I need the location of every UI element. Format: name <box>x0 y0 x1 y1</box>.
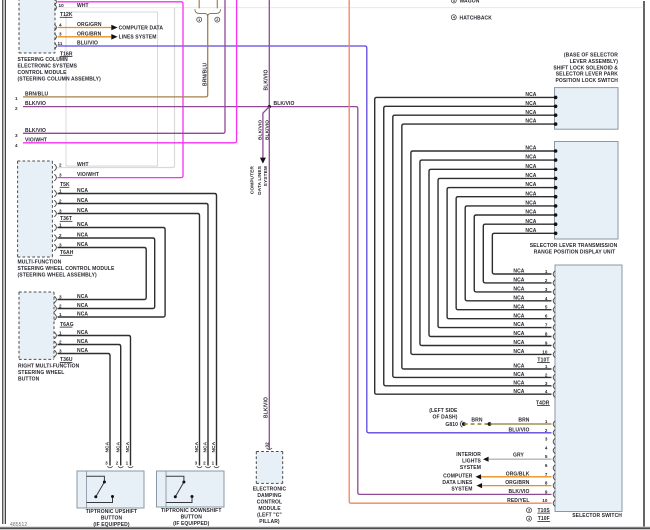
svg-text:WHT: WHT <box>77 3 89 9</box>
svg-text:3: 3 <box>105 461 108 466</box>
svg-text:DATA LINES: DATA LINES <box>257 165 263 195</box>
svg-text:11: 11 <box>58 41 63 46</box>
selector switch box <box>555 265 622 512</box>
svg-text:3: 3 <box>59 208 62 213</box>
svg-text:NCA: NCA <box>525 110 536 116</box>
svg-text:BLK/VIO: BLK/VIO <box>274 101 295 107</box>
svg-text:VIO/WHT: VIO/WHT <box>25 138 47 144</box>
page border bottom <box>0 527 650 530</box>
svg-text:6: 6 <box>545 314 548 319</box>
svg-text:DAMPING: DAMPING <box>257 493 281 499</box>
svg-text:8: 8 <box>545 481 548 486</box>
wire BRN to selector pin 1 <box>490 423 552 425</box>
wire NCA display unit pin to selector T10T pin 8 <box>429 169 555 336</box>
svg-text:STEERING COLUMN: STEERING COLUMN <box>18 57 69 63</box>
svg-text:HATCHBACK: HATCHBACK <box>460 15 493 21</box>
pin 10 <box>54 4 56 11</box>
svg-text:1: 1 <box>59 188 62 193</box>
svg-text:MODULE: MODULE <box>258 506 281 512</box>
selector T10S/T10F pin 7 <box>553 474 555 481</box>
svg-text:10: 10 <box>542 349 548 354</box>
selector T10T pin 10 <box>553 351 555 358</box>
svg-text:1: 1 <box>15 96 18 101</box>
wire NCA T36U pin 1 to upshift pin 1 <box>58 336 131 466</box>
svg-text:NCA: NCA <box>77 294 88 300</box>
pin 2 <box>205 466 210 467</box>
electronic damping control module box <box>256 452 282 484</box>
svg-text:NCA: NCA <box>513 380 524 386</box>
svg-text:BLK/VIO: BLK/VIO <box>264 397 270 418</box>
svg-text:SELECTOR LEVER PARK: SELECTOR LEVER PARK <box>556 72 619 78</box>
svg-text:DATA LINES: DATA LINES <box>442 480 473 486</box>
pin 3 <box>107 466 112 467</box>
svg-text:VIO/WHT: VIO/WHT <box>77 172 99 178</box>
svg-text:ELECTRONIC: ELECTRONIC <box>253 487 287 493</box>
svg-text:NCA: NCA <box>513 364 524 370</box>
svg-text:NCA: NCA <box>525 101 536 107</box>
svg-text:NCA: NCA <box>77 233 88 239</box>
svg-text:32: 32 <box>265 442 270 448</box>
wire NCA T36U pin 2 to upshift pin 2 <box>58 345 121 466</box>
pin 3 <box>197 466 202 467</box>
svg-text:2: 2 <box>203 461 206 466</box>
svg-text:3: 3 <box>195 461 198 466</box>
svg-text:CONTROL: CONTROL <box>257 500 282 506</box>
wire RED/YEL from top edge to selector pin 10 <box>349 0 551 503</box>
selector T10T pin 8 <box>553 333 555 340</box>
wire 1 BRN/BLU to splice bracket <box>23 15 208 97</box>
selector T10S/T10F pin 9 <box>553 491 555 498</box>
svg-text:PILLAR): PILLAR) <box>259 519 280 525</box>
svg-text:NCA: NCA <box>513 287 524 293</box>
svg-text:3: 3 <box>59 32 62 37</box>
svg-text:TIPTRONIC DOWNSHIFT: TIPTRONIC DOWNSHIFT <box>161 508 222 514</box>
wire 2 BLK/VIO trunk to selector pin 9 <box>23 107 552 495</box>
svg-text:3: 3 <box>59 172 62 177</box>
svg-text:4: 4 <box>545 389 548 394</box>
svg-text:NCA: NCA <box>525 155 536 161</box>
svg-text:(BASE OF SELECTOR: (BASE OF SELECTOR <box>564 53 618 59</box>
wire NCA T36T pin 1 to T6AG pin 1 <box>58 228 166 318</box>
svg-text:NCA: NCA <box>105 441 111 452</box>
wire NCA T36U pin 3 to upshift pin 3 <box>58 354 111 466</box>
svg-text:NCA: NCA <box>525 119 536 125</box>
svg-text:6: 6 <box>545 463 548 468</box>
svg-text:7: 7 <box>545 472 548 477</box>
svg-text:BRN/BLU: BRN/BLU <box>25 91 48 97</box>
svg-text:(STEERING WHEEL ASSEMBLY): (STEERING WHEEL ASSEMBLY) <box>18 273 98 279</box>
svg-text:(IF EQUIPPED): (IF EQUIPPED) <box>93 522 130 528</box>
selector T4DR pin 4 <box>553 391 555 398</box>
svg-text:1: 1 <box>198 18 200 22</box>
svg-text:NCA: NCA <box>525 228 536 234</box>
pin 3 VIO/WHT <box>54 174 56 181</box>
svg-text:MULTI-FUNCTION: MULTI-FUNCTION <box>18 260 62 266</box>
internal grey frame <box>66 12 158 166</box>
page border right line <box>643 1 645 528</box>
svg-text:NCA: NCA <box>211 441 217 452</box>
wire NCA display unit pin to selector T10T pin 1 <box>492 233 554 274</box>
pin 32 <box>267 448 272 449</box>
svg-text:WHT: WHT <box>77 162 89 168</box>
svg-text:5: 5 <box>545 454 548 459</box>
circled variant 1 <box>197 17 202 22</box>
selector T10S/T10F pin 6 <box>553 465 555 472</box>
wire NCA T5K pin 3 to downshift pin 3 <box>58 214 200 466</box>
wire NCA shift lock pin to selector T4DR pin 1 <box>402 124 555 369</box>
svg-text:BUTTON: BUTTON <box>101 516 123 522</box>
svg-text:NCA: NCA <box>525 201 536 207</box>
svg-text:BRN: BRN <box>471 417 482 423</box>
svg-text:2: 2 <box>59 303 62 308</box>
svg-text:NCA: NCA <box>513 331 524 337</box>
svg-text:2: 2 <box>216 18 218 22</box>
svg-text:NCA: NCA <box>525 219 536 225</box>
svg-text:3: 3 <box>528 509 530 513</box>
pin 11 BLU/VIO wire to selector pin 2 <box>58 46 552 433</box>
svg-text:LINES SYSTEM: LINES SYSTEM <box>119 35 157 41</box>
svg-text:NCA: NCA <box>525 191 536 197</box>
svg-text:2: 2 <box>545 372 548 377</box>
selector T10T pin 1 <box>553 271 555 278</box>
svg-text:STEERING WHEEL: STEERING WHEEL <box>18 370 64 376</box>
svg-text:4: 4 <box>59 22 62 27</box>
svg-text:2: 2 <box>59 233 62 238</box>
circled variant 2 <box>215 17 220 22</box>
connector T10F hatchback <box>527 516 532 521</box>
svg-text:WAGON: WAGON <box>460 0 480 5</box>
svg-text:ORG/BRN: ORG/BRN <box>77 31 102 37</box>
pin 1 NCA T6AG <box>54 314 56 321</box>
tiptronic downshift box <box>157 471 225 507</box>
svg-text:5: 5 <box>545 305 548 310</box>
svg-text:8: 8 <box>545 332 548 337</box>
svg-text:1: 1 <box>59 222 62 227</box>
svg-text:2: 2 <box>545 278 548 283</box>
selector T4DR pin 3 <box>553 383 555 390</box>
svg-text:BLK/VIO: BLK/VIO <box>25 128 46 134</box>
svg-text:1: 1 <box>212 461 215 466</box>
svg-text:NCA: NCA <box>77 330 88 336</box>
svg-text:NCA: NCA <box>525 146 536 152</box>
svg-text:2: 2 <box>545 428 548 433</box>
svg-text:NCA: NCA <box>77 339 88 345</box>
svg-text:1: 1 <box>126 461 129 466</box>
wire NCA display unit pin to selector T10T pin 6 <box>447 188 555 319</box>
wire 4 VIO/WHT to top edge <box>23 0 237 143</box>
wire NCA shift lock pin to selector T4DR pin 4 <box>375 97 555 394</box>
svg-text:3: 3 <box>453 0 455 3</box>
wire NCA T5K pin 1 to downshift pin 1 <box>58 194 217 466</box>
svg-text:3: 3 <box>59 348 62 353</box>
svg-text:NCA: NCA <box>513 349 524 355</box>
selector T10T pin 4 <box>553 298 555 305</box>
svg-text:1: 1 <box>59 330 62 335</box>
BLK/VIO branch to computer data lines system arrow <box>263 107 269 159</box>
wire NCA display unit pin to selector T10T pin 4 <box>465 206 555 301</box>
svg-text:NCA: NCA <box>525 164 536 170</box>
svg-text:NCA: NCA <box>77 198 88 204</box>
svg-text:3: 3 <box>59 294 62 299</box>
svg-text:(IF EQUIPPED): (IF EQUIPPED) <box>173 521 210 527</box>
selector T10S/T10F pin 4 <box>553 447 555 454</box>
svg-text:RIGHT MULTI-FUNCTION: RIGHT MULTI-FUNCTION <box>18 363 80 369</box>
svg-text:BLK/VIO: BLK/VIO <box>509 489 530 495</box>
svg-text:COMPUTER DATA: COMPUTER DATA <box>119 25 164 31</box>
svg-text:3: 3 <box>545 437 548 442</box>
svg-text:NCA: NCA <box>125 441 131 452</box>
svg-text:COMPUTER: COMPUTER <box>443 474 473 480</box>
selector T10S/T10F pin 3 <box>553 438 555 445</box>
pin 2 WHT <box>54 164 56 171</box>
svg-text:1: 1 <box>545 364 548 369</box>
svg-text:2: 2 <box>59 339 62 344</box>
pin 2 <box>118 466 123 467</box>
svg-text:(LEFT SIDE: (LEFT SIDE <box>429 408 458 414</box>
svg-text:SYSTEM: SYSTEM <box>451 487 472 493</box>
svg-text:BLK/VIO: BLK/VIO <box>264 70 270 91</box>
selector T10S/T10F pin 1 <box>553 421 555 428</box>
arrow to computer data lines system <box>111 25 117 31</box>
svg-text:OF DASH): OF DASH) <box>433 414 458 420</box>
svg-text:3: 3 <box>545 381 548 386</box>
selector T10S/T10F pin 10 <box>553 500 555 507</box>
svg-text:(LEFT "C": (LEFT "C" <box>257 513 282 519</box>
svg-text:NCA: NCA <box>525 182 536 188</box>
svg-text:BRN: BRN <box>518 417 529 423</box>
svg-text:SELECTOR LEVER TRANSMISSION: SELECTOR LEVER TRANSMISSION <box>530 243 618 249</box>
svg-text:NCA: NCA <box>77 208 88 214</box>
svg-text:9: 9 <box>545 341 548 346</box>
wire NCA shift lock pin to selector T4DR pin 2 <box>393 115 555 377</box>
svg-text:G810: G810 <box>445 422 458 428</box>
svg-text:NCA: NCA <box>513 322 524 328</box>
svg-text:BLK/VIO: BLK/VIO <box>25 101 46 107</box>
svg-text:NCA: NCA <box>194 441 200 452</box>
svg-text:NCA: NCA <box>525 210 536 216</box>
svg-text:NCA: NCA <box>513 269 524 275</box>
svg-text:BLU/VIO: BLU/VIO <box>509 428 530 434</box>
splice alternative stubs and brace <box>198 0 200 8</box>
svg-text:2: 2 <box>59 162 62 167</box>
svg-text:NCA: NCA <box>77 348 88 354</box>
svg-text:NCA: NCA <box>203 441 209 452</box>
svg-text:1: 1 <box>59 312 62 317</box>
svg-text:RANGE POSITION DISPLAY UNIT: RANGE POSITION DISPLAY UNIT <box>534 249 616 255</box>
pin 2 NCA T6AG <box>54 305 56 312</box>
svg-text:7: 7 <box>545 323 548 328</box>
svg-text:BUTTON: BUTTON <box>181 515 203 521</box>
svg-text:NCA: NCA <box>525 92 536 98</box>
selector T10T pin 6 <box>553 315 555 322</box>
svg-text:SELECTOR SWITCH: SELECTOR SWITCH <box>572 513 622 519</box>
pin 1 <box>128 466 133 467</box>
pin 3 ORG/BRN wire <box>58 36 112 38</box>
svg-text:ELECTRONIC SYSTEMS: ELECTRONIC SYSTEMS <box>18 64 78 70</box>
svg-text:ORG/BRN: ORG/BRN <box>505 480 530 486</box>
svg-text:NCA: NCA <box>513 389 524 395</box>
svg-text:10: 10 <box>59 3 65 8</box>
selector T4DR pin 2 <box>553 374 555 381</box>
svg-text:BLK/VIO: BLK/VIO <box>257 120 263 140</box>
svg-text:ORG/BLK: ORG/BLK <box>506 471 530 477</box>
selector T10T pin 9 <box>553 342 555 349</box>
svg-text:3: 3 <box>545 287 548 292</box>
svg-text:STEERING WHEEL CONTROL MODULE: STEERING WHEEL CONTROL MODULE <box>18 266 115 272</box>
svg-text:(STEERING COLUMN ASSEMBLY): (STEERING COLUMN ASSEMBLY) <box>18 77 102 83</box>
selector T4DR pin 1 <box>553 366 555 373</box>
svg-text:ORG/GRN: ORG/GRN <box>77 22 102 28</box>
right multi-function steering wheel button box <box>19 292 54 359</box>
selector T10T pin 2 <box>553 280 555 287</box>
pin 4 ORG/GRN wire <box>58 27 112 29</box>
svg-text:COMPUTER: COMPUTER <box>250 166 256 195</box>
svg-text:POSITION LOCK SWITCH: POSITION LOCK SWITCH <box>555 78 618 84</box>
wire NCA display unit pin to selector T10T pin 2 <box>483 224 555 283</box>
svg-text:4: 4 <box>15 143 18 148</box>
steering column electronic systems control module box <box>19 0 55 53</box>
svg-text:10: 10 <box>542 498 548 503</box>
svg-text:2: 2 <box>59 198 62 203</box>
svg-text:485512: 485512 <box>10 522 27 528</box>
svg-text:GRY: GRY <box>513 453 525 459</box>
svg-text:TIPTRONIC UPSHIFT: TIPTRONIC UPSHIFT <box>86 509 137 515</box>
svg-text:NCA: NCA <box>77 312 88 318</box>
svg-text:INTERIOR: INTERIOR <box>456 452 481 458</box>
switch symbol <box>87 476 105 480</box>
svg-text:4: 4 <box>545 445 548 450</box>
page border left double line <box>2 0 4 524</box>
svg-text:NCA: NCA <box>513 295 524 301</box>
svg-text:4: 4 <box>545 296 548 301</box>
svg-text:NCA: NCA <box>513 372 524 378</box>
wire WHT pin10 to multifunction pin2 <box>58 7 644 9</box>
svg-text:SYSTEM: SYSTEM <box>460 465 481 471</box>
wire NCA T36T pin 2 to T6AG pin 2 <box>58 238 155 309</box>
svg-text:CONTROL MODULE: CONTROL MODULE <box>18 70 68 76</box>
wire 3 BLK/VIO to top edge <box>23 0 225 133</box>
svg-text:LIGHTS: LIGHTS <box>462 459 481 465</box>
svg-text:BUTTON: BUTTON <box>18 376 40 382</box>
svg-text:BRN/BLU: BRN/BLU <box>202 63 208 86</box>
selector T10T pin 5 <box>553 306 555 313</box>
BLK/VIO branch down to damping module pin 32 <box>268 107 270 450</box>
svg-text:NCA: NCA <box>77 188 88 194</box>
selector T10S/T10F pin 5 <box>553 456 555 463</box>
svg-text:2: 2 <box>15 106 18 111</box>
tiptronic upshift box <box>77 471 144 508</box>
wire NCA T5K pin 2 to downshift pin 2 <box>58 204 209 466</box>
svg-text:NCA: NCA <box>513 313 524 319</box>
selector T10T pin 3 <box>553 289 555 296</box>
wire NCA display unit pin to selector T10T pin 5 <box>456 197 555 310</box>
junction node BLK/VIO <box>268 105 271 108</box>
svg-text:NCA: NCA <box>115 441 121 452</box>
svg-text:3: 3 <box>59 242 62 247</box>
wire VIO/WHT top edge to multifunction pin3 <box>57 2 183 178</box>
wire NCA display unit pin to selector T10T pin 9 <box>420 160 555 345</box>
svg-text:2: 2 <box>116 461 119 466</box>
svg-text:NCA: NCA <box>77 222 88 228</box>
switch symbol <box>166 476 184 480</box>
wire NCA display unit pin to selector T10T pin 3 <box>474 215 555 292</box>
svg-text:1: 1 <box>545 419 548 424</box>
wire NCA shift lock pin to selector T4DR pin 3 <box>384 106 555 386</box>
svg-text:NCA: NCA <box>77 242 88 248</box>
svg-text:SHIFT LOCK SOLENOID &: SHIFT LOCK SOLENOID & <box>553 65 618 71</box>
selector T10S/T10F pin 2 <box>553 430 555 437</box>
svg-text:SYSTEM: SYSTEM <box>263 166 269 186</box>
legend circled 4 hatchback <box>451 15 456 20</box>
pin 1 <box>214 466 219 467</box>
BLK/VIO vertical from top edge <box>268 0 270 107</box>
multi-function steering wheel control module box <box>18 161 53 257</box>
svg-text:9: 9 <box>545 489 548 494</box>
wire NCA T36T pin 3 to T6AG pin 3 <box>58 248 147 300</box>
selector T10T pin 7 <box>553 324 555 331</box>
svg-text:NCA: NCA <box>525 173 536 179</box>
shift lock solenoid and park position lock switch box <box>555 88 619 130</box>
svg-text:RED/YEL: RED/YEL <box>507 498 529 504</box>
svg-text:NCA: NCA <box>513 304 524 310</box>
svg-text:NCA: NCA <box>513 278 524 284</box>
svg-text:3: 3 <box>15 133 18 138</box>
wire NCA display unit pin to selector T10T pin 10 <box>411 151 555 354</box>
svg-text:BLU/VIO: BLU/VIO <box>77 41 98 47</box>
selector lever transmission range position display unit box <box>555 142 619 240</box>
selector T10S/T10F pin 8 <box>553 482 555 489</box>
legend circled 3 wagon <box>451 0 456 3</box>
pin 3 NCA T6AG <box>54 296 56 303</box>
svg-text:NCA: NCA <box>77 303 88 309</box>
svg-text:NCA: NCA <box>513 340 524 346</box>
connector T10S wagon <box>527 508 532 513</box>
svg-text:LEVER ASSEMBLY): LEVER ASSEMBLY) <box>570 59 619 65</box>
svg-text:1: 1 <box>545 269 548 274</box>
wire NCA display unit pin to selector T10T pin 7 <box>438 178 555 327</box>
